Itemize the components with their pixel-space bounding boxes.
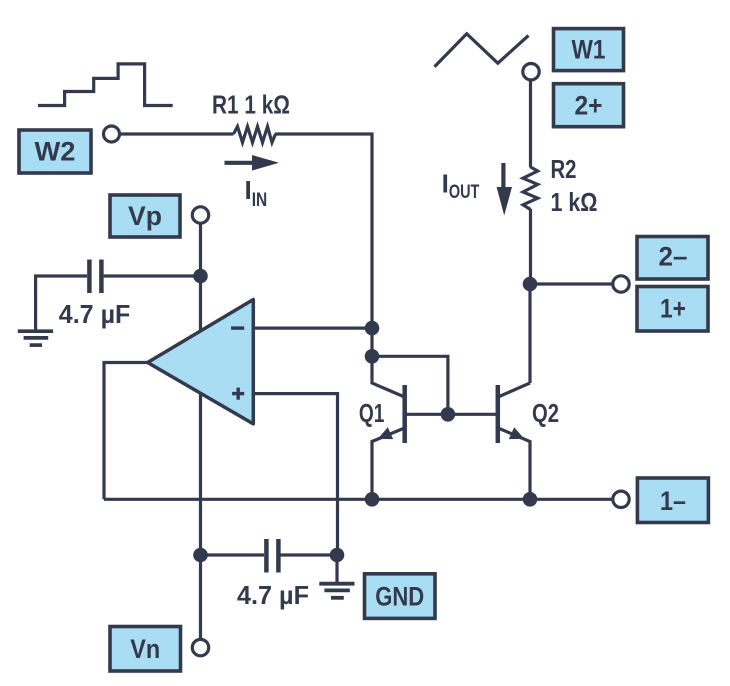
node C2 right / gnd: [330, 548, 345, 563]
op-amp minus input wire: [253, 327, 372, 330]
Vp to Vn vertical supply wire: [199, 223, 202, 639]
svg-text:1–: 1–: [660, 486, 686, 516]
capacitor C2 plates: [264, 539, 269, 573]
Q1 collector: [372, 363, 405, 397]
1- box: [637, 478, 708, 523]
node minus input: [365, 321, 380, 336]
W1 box: [554, 29, 624, 71]
Vn box: [110, 627, 181, 672]
wire R2 to 2- node: [529, 209, 532, 284]
Q2 emitter: [498, 428, 530, 499]
svg-text:2–: 2–: [659, 242, 688, 272]
terminal 1- open circle: [613, 491, 629, 507]
wire node to 2- terminal: [530, 282, 613, 285]
Q2 bar: [496, 385, 501, 443]
transistor Q1: [372, 363, 405, 499]
Q2 collector: [498, 383, 530, 397]
base-collector tie wire: [372, 356, 448, 414]
capacitor C1 right wire: [104, 274, 201, 277]
op-amp plus sign: [232, 392, 244, 395]
svg-text:Vp: Vp: [128, 201, 162, 231]
svg-text:GND: GND: [375, 582, 424, 612]
Vp box: [110, 195, 180, 237]
svg-text:2+: 2+: [575, 91, 603, 121]
wire R1 to node column: [275, 134, 372, 363]
svg-text:W1: W1: [572, 35, 606, 65]
transistor Q2: [498, 383, 530, 499]
op-amp minus sign: [231, 326, 244, 329]
Vp terminal circle: [192, 207, 208, 223]
terminal W1 open circle: [523, 63, 539, 79]
capacitor C1 plates: [87, 260, 92, 294]
2+ box: [554, 84, 624, 127]
node R2 / 2-: [523, 277, 538, 292]
wire W1 to R2: [529, 80, 532, 168]
W2 box: [19, 130, 91, 173]
svg-text:4.7 µF: 4.7 µF: [59, 299, 131, 329]
I_IN arrow: [225, 155, 280, 171]
wire W2 to R1: [120, 132, 234, 135]
svg-text:R1 1 kΩ: R1 1 kΩ: [212, 90, 290, 120]
capacitor C2 right wire: [281, 553, 338, 556]
op-amp feedback wire from output: [104, 363, 148, 500]
Q1 bar: [402, 385, 407, 443]
I_OUT arrow: [497, 163, 512, 216]
Q2 emitter arrow: [509, 427, 525, 439]
staircase waveform at W2: [38, 64, 173, 106]
op-amp plus input wire: [253, 394, 337, 555]
op-amp U1: [148, 300, 254, 424]
svg-text:1 kΩ: 1 kΩ: [551, 187, 598, 217]
svg-text:R2: R2: [551, 154, 577, 184]
node Vp/C1: [193, 269, 208, 284]
bottom rail wire: [104, 498, 613, 501]
svg-text:Vn: Vn: [130, 634, 160, 664]
Vn terminal circle: [192, 639, 208, 655]
resistor R2: [523, 167, 538, 210]
svg-text:1+: 1+: [660, 294, 686, 324]
Q1 emitter: [372, 428, 405, 499]
svg-text:Q1: Q1: [359, 398, 385, 428]
2- box: [637, 237, 708, 280]
node C2 left: [193, 548, 208, 563]
svg-text:4.7 µF: 4.7 µF: [237, 580, 309, 610]
svg-text:Q2: Q2: [532, 398, 559, 428]
GND box: [365, 574, 436, 619]
terminal 2-/1+ open circle: [613, 276, 629, 292]
capacitor C1 left wire and drop: [36, 276, 87, 330]
Q1/Q2 base rail: [405, 413, 498, 416]
resistor R1: [234, 127, 276, 143]
junction dots: [193, 269, 537, 563]
svg-text:W2: W2: [35, 137, 76, 167]
Q1 emitter arrow: [378, 427, 394, 439]
wire node down to Q2 collector: [528, 284, 531, 383]
node base rail: [441, 407, 456, 422]
ground symbol bottom: [335, 555, 338, 582]
capacitor C2 left wire: [201, 553, 265, 556]
terminal W2 open circle: [104, 126, 120, 142]
ground symbol top-left: [18, 331, 53, 345]
node Q2 emitter / rail: [523, 492, 538, 507]
1+ box: [637, 287, 708, 332]
triangle waveform at W1: [435, 34, 529, 67]
node collector tie: [365, 349, 380, 364]
node Q1 emitter / rail: [365, 492, 380, 507]
